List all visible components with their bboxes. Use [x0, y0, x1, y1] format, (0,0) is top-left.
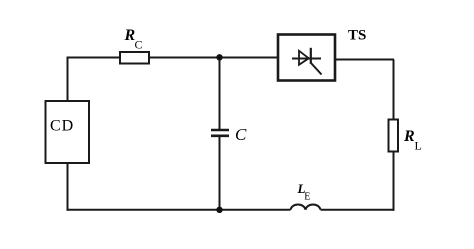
svg-text:C: C	[235, 125, 247, 144]
svg-text:CD: CD	[50, 118, 74, 135]
svg-text:E: E	[304, 192, 310, 203]
svg-text:L: L	[415, 139, 422, 153]
svg-text:C: C	[135, 38, 143, 52]
svg-text:TS: TS	[348, 28, 366, 44]
svg-text:R: R	[403, 128, 415, 145]
